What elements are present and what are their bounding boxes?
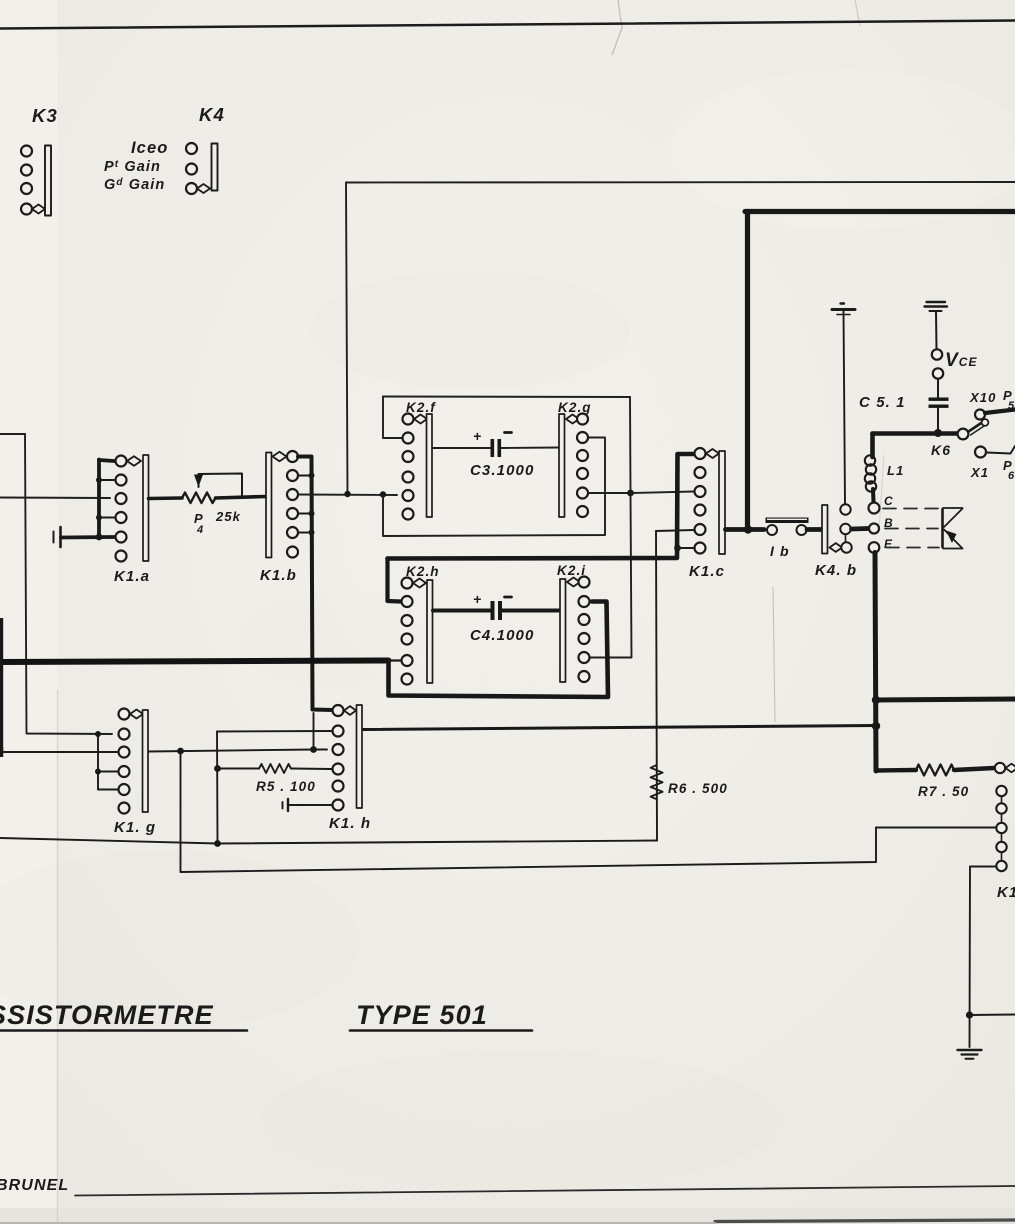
C3 loop: top edge wire [383,396,630,399]
contact X1 [970,446,1015,482]
junction dots on K1.a bus [96,477,103,540]
sheet top border line [0,21,1015,29]
wire: Ib to K4.b (thick) [807,527,821,532]
bottom scan edge dark line [0,1220,1015,1223]
C3 loop: left leg to K2.f [383,397,402,439]
svg-text:K1. g: K1. g [114,819,156,836]
thin enclosure box: top edge [346,181,1015,184]
left margin cut-off box: top edge [0,433,25,435]
wire: ground riser down [969,867,972,1048]
wire: line1 (bottom thin return) [0,838,657,844]
svg-text:BRUNEL: BRUNEL [0,1177,69,1194]
wire: node to K1.c bottom contact [678,547,695,549]
wire: line2 riser to K1.j contact 3 [876,827,996,829]
node: thin box edge joins main bus [344,491,350,497]
wire: left edge to K1.g contact3 [0,751,117,753]
svg-text:I b: I b [770,543,790,559]
switch K6 [931,419,988,458]
wire: bottom thick bus to right edge [876,699,1015,700]
title TYPE 501 [350,1000,532,1031]
svg-text:K1.b: K1.b [260,567,297,584]
C4 loop: lower left leg (thick) [389,602,609,698]
wire: main bus K1.b to K2.f (thin) [299,494,398,497]
transistor under test (dashed socket + symbol) [883,508,963,549]
potentiometer P4 25k [182,474,242,537]
label Gd Gain [104,177,165,193]
C3 loop: left-bottom leg [383,438,605,537]
svg-text:X10: X10 [969,390,996,405]
svg-text:C4.1000: C4.1000 [470,627,534,644]
svg-text:K2.f: K2.f [406,400,436,415]
C4 loop: top edge wire (thick) to K1.c [388,454,696,559]
junction dots K1.g bus [95,731,101,775]
wire: K1.h wiper bus (medium) [363,726,876,730]
wire: collector rail (thick) [873,431,958,436]
capacitor C4 1000 [433,591,559,644]
terminal B [869,516,894,534]
node: emitter rail / bottom thick bus [872,696,880,704]
wire: emitter down (thick) [875,553,876,772]
relay contacts K2.h [402,564,440,685]
wire: R5 drop riser [216,732,219,844]
svg-text:Pt Gain: Pt Gain [104,159,161,175]
wire: P4 to K1.b (thick) [216,497,266,499]
node: K1.c feed to lower contact [674,545,681,552]
title TRANSISTORMETRE [0,1000,247,1031]
relay contacts K1.b [260,451,298,584]
push contact Ib [766,518,809,560]
node: thick box leg lands on base wire [744,525,752,533]
resistor R6 500 (vertical, in riser) [651,765,728,799]
wire: K4.b to base terminal (thick) [852,526,869,531]
svg-text:Gd Gain: Gd Gain [104,177,165,193]
svg-text:K4: K4 [199,104,225,125]
wire: K1.j contact5 to ground riser [970,866,997,868]
wire: K2.g wiper circle to node [589,492,629,494]
wire: thick bottom bus (far left to C4) [0,661,389,663]
node: line1 / R5 riser [214,840,221,847]
svg-text:K2.g: K2.g [558,400,592,415]
terminal C [869,494,894,514]
svg-text:5: 5 [1008,400,1015,412]
label Pt Gain [104,159,161,175]
svg-text:L1: L1 [887,463,904,478]
ground (chassis, above K4.b) [832,304,855,315]
svg-text:Iceo: Iceo [131,139,168,157]
label Iceo [131,139,168,157]
svg-text:C 5. 1: C 5. 1 [859,394,906,411]
C4 loop: upper left leg (thick) [388,559,401,602]
terminals Vce [932,312,978,379]
left edge ink blob 2 [0,747,3,757]
thin enclosure box: left edge wire [346,183,348,494]
thick enclosure box: top edge [745,209,1015,214]
svg-text:K4. b: K4. b [815,562,857,579]
wire: K1.h contact2 feed [217,730,332,733]
relay contacts K2.i [557,563,590,682]
contact X10 [969,388,1015,420]
svg-text:R5 . 100: R5 . 100 [256,779,316,794]
relay contacts K2.f [403,400,437,520]
relay contacts K1.c [689,448,725,580]
svg-text:K6: K6 [931,442,951,458]
capacitor C5 1 [859,379,949,432]
ground (bottom right) [958,1050,982,1059]
svg-text:K2.i: K2.i [557,563,586,578]
relay contact K1.j (right edge, cut) [995,763,1015,901]
svg-text:TYPE 501: TYPE 501 [356,1000,488,1030]
svg-text:25k: 25k [215,509,241,524]
relay contacts K1.h [329,705,371,832]
wire: K1.g wiper to K1.h contact3 [149,750,328,752]
relay contacts K1.a [114,455,150,585]
svg-text:C3.1000: C3.1000 [470,462,534,479]
svg-text:+: + [473,428,482,444]
node: bottom-right branch [966,1011,973,1018]
svg-text:+: + [473,591,482,607]
svg-text:K3: K3 [32,105,58,126]
bottom title-block line [75,1186,1015,1196]
wire: K1.c circle5 to R6 riser (thin) [656,530,694,531]
terminal E [869,537,893,553]
wire: K1.a wiper to P4 (thick) [149,496,183,500]
wire: R6 riser (thin vertical) [656,531,657,841]
wire: branch to right edge [970,1014,1015,1017]
wire: L1 to collector terminal (thick) [871,489,876,502]
wire: K1.b right bus down to K1.h (thick) [298,457,332,711]
svg-text:K1: K1 [997,884,1015,901]
wire: K1.c wiper to Ib (thick) [726,527,765,532]
node: R5 tap [214,765,221,772]
ground (above Vce) [925,302,948,311]
wire: K1.a left bus (thick) [99,460,114,538]
wire: collector rail down to L1 (thick) [870,434,875,458]
svg-text:K1. h: K1. h [329,815,371,832]
wire: K1.h bus drop (thin) [313,713,315,750]
relay contact K4.b [815,504,857,579]
resistor R7 50 [876,765,994,800]
wire: line2 (long thin return) [181,751,877,872]
switch K4 [186,104,225,194]
svg-text:R6 . 500: R6 . 500 [668,781,728,796]
node: line2 tap [177,748,184,755]
wire: C4 corner to K2.h wiper circle [389,659,401,661]
svg-text:E: E [884,537,893,551]
svg-text:X1: X1 [970,465,989,480]
svg-text:6: 6 [1008,470,1015,482]
ground (K1.h, left style) [283,799,332,811]
svg-text:4: 4 [196,524,204,536]
signature BRUNEL [0,1177,69,1194]
svg-text:R7 . 50: R7 . 50 [918,784,969,799]
wire: node to K1.c (thin) [631,492,695,494]
wire: ground down to K4.b top contact (thin) [844,311,846,505]
svg-text:K1.c: K1.c [689,563,725,580]
svg-text:K1.a: K1.a [114,568,150,585]
relay contacts K1.g [114,709,156,837]
inductor L1 [865,455,905,491]
junction dots on K1.b bus [309,473,315,536]
switch K3 [21,105,58,216]
node: main bus at C3 left leg [380,491,386,497]
resistor R5 100 [218,764,332,794]
capacitor C3 1000 [433,428,559,479]
C3 loop: right leg from top edge to main bus node [629,397,632,493]
wire: node down to K2.i wiper (thin) [590,493,632,658]
node: K1.h wiper wire end [872,722,880,730]
relay contacts K2.g [558,400,592,517]
wire: K1.g left bus [98,734,117,790]
svg-text:SSISTORMETRE: SSISTORMETRE [0,1000,214,1030]
wire: main bus left segment (thin) to K1.a [0,497,110,500]
ground (K1.a, left style) [54,527,115,547]
thick enclosure box: left edge wire [745,212,750,530]
node: C3 right / K1.c / K2.i junction [627,490,634,497]
left edge ink blob [0,618,3,755]
node: K1.h bus tap [310,746,317,753]
node: C5 to collector rail [934,429,942,437]
svg-text:C: C [884,494,894,508]
svg-text:K2.h: K2.h [406,564,440,579]
wire: left box vertical down to K1.g [25,434,112,734]
